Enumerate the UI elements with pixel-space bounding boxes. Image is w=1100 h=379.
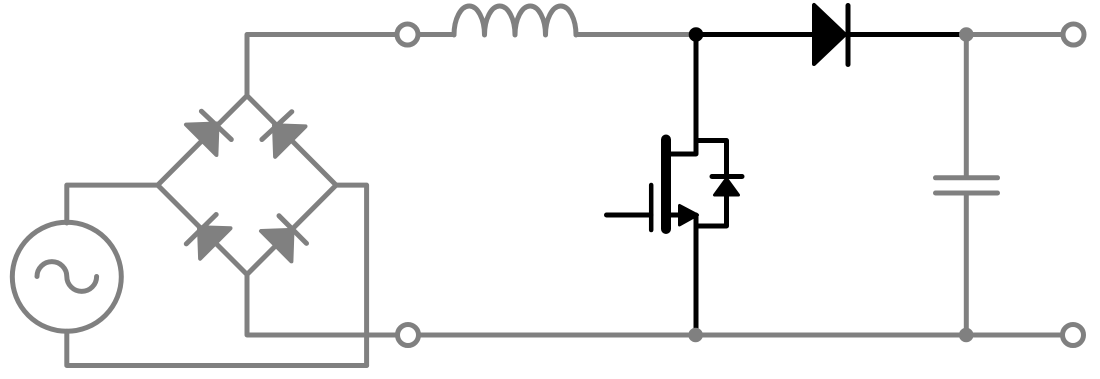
mosfet Q1 drain wire: [668, 35, 696, 155]
wire top-left corner from bridge top to top rail: [247, 35, 396, 96]
mosfet Q1 source wire with arrow: [668, 206, 698, 226]
bridge diode D4 bottom-left: [186, 215, 230, 259]
bridge diode D2 top-left: [186, 111, 231, 155]
bridge diode D3 top-right: [262, 112, 306, 157]
wire AC source bottom return: [67, 331, 367, 365]
capacitor C1 top wire: [964, 35, 969, 176]
terminal TP2 output positive: [1063, 24, 1084, 45]
wire bridge bottom vertex to bottom terminal: [247, 275, 396, 336]
wire node D to diode D1: [696, 32, 816, 37]
terminal TP1 top input: [397, 24, 418, 45]
wire bridge left vertex to AC source top: [67, 185, 158, 223]
mosfet Q1 gate wire: [607, 213, 652, 218]
mosfet Q1 source vertical wire: [694, 215, 699, 335]
body diode D6 connection wires: [696, 141, 727, 227]
node D junction dot: [689, 27, 704, 42]
node OUT+ junction dot: [959, 27, 974, 42]
inductor L1: [454, 6, 576, 35]
node OUT- junction dot: [959, 328, 974, 343]
capacitor C1 plates: [936, 178, 998, 193]
capacitor C1 bottom wire: [964, 196, 969, 336]
bridge rectifier diamond wire: [158, 96, 336, 275]
body diode D6 symbol: [712, 177, 742, 196]
terminal TP3 bottom input: [398, 325, 419, 346]
wire bottom rail: [421, 333, 1061, 338]
bridge diode D5 bottom-right: [261, 216, 307, 262]
mosfet Q1 channel bar: [661, 140, 671, 230]
node S junction dot: [688, 328, 703, 343]
diode D1 boost diode: [814, 5, 848, 65]
wire terminal to inductor: [420, 32, 455, 37]
mosfet Q1 gate bar: [649, 185, 654, 230]
terminal TP4 output negative: [1063, 325, 1084, 346]
wire inductor to node D: [576, 32, 692, 37]
wire bridge right vertex down to AC return: [336, 185, 367, 365]
wire diode D1 to node OUT+: [848, 32, 960, 37]
wire node OUT+ to terminal: [966, 32, 1061, 37]
ac source V1: [12, 222, 121, 331]
